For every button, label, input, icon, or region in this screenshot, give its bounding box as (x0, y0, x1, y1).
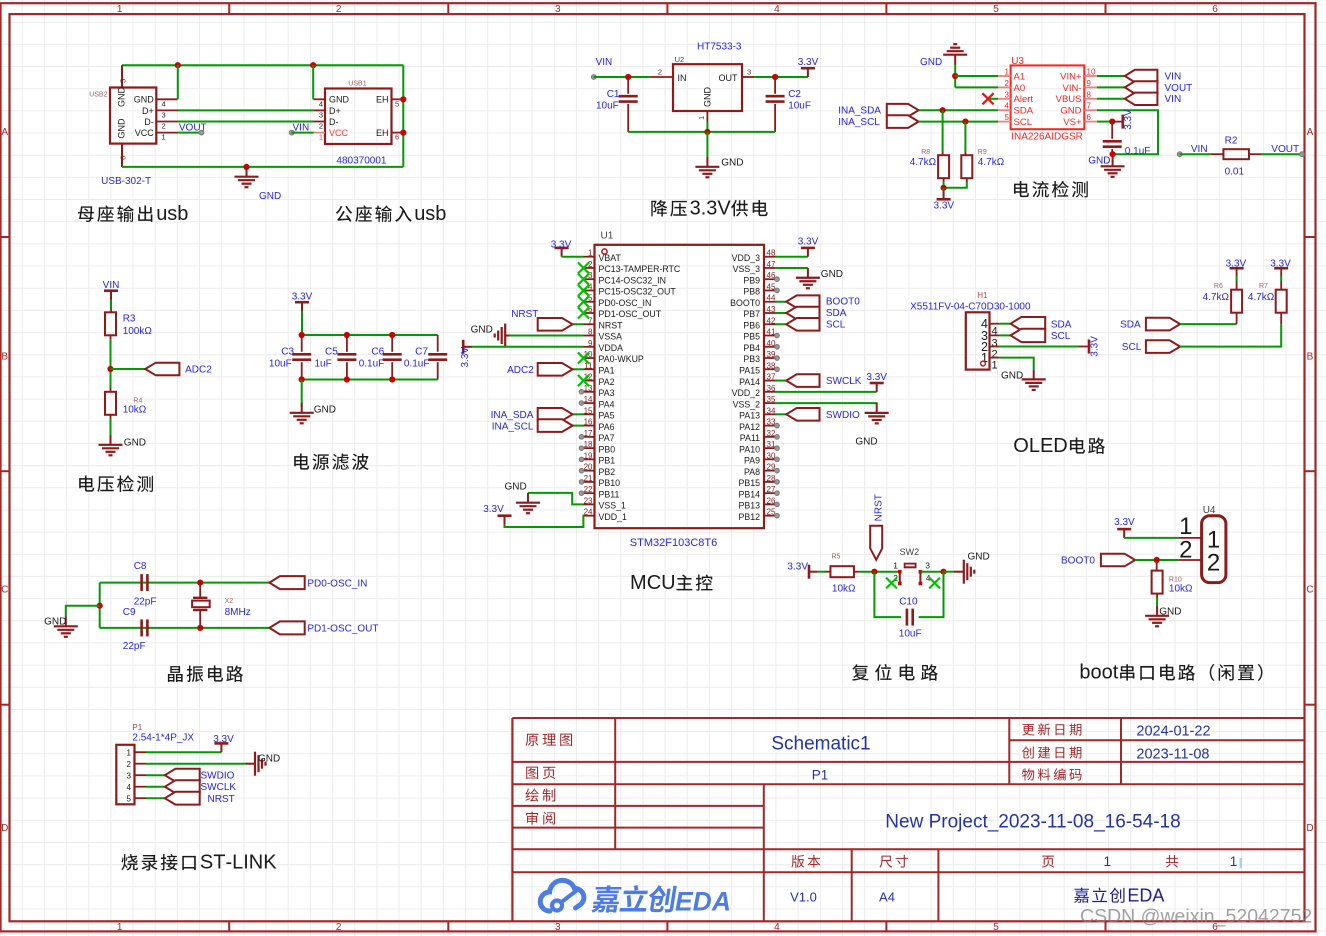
svg-text:4.7kΩ: 4.7kΩ (978, 157, 1005, 168)
svg-text:GND: GND (471, 324, 493, 335)
svg-text:5: 5 (395, 99, 399, 108)
svg-text:PA10: PA10 (739, 444, 760, 454)
svg-text:u: u (414, 203, 425, 225)
svg-text:PA12: PA12 (739, 422, 760, 432)
svg-text:17: 17 (584, 429, 593, 438)
svg-text:3: 3 (706, 198, 717, 220)
svg-text:V: V (717, 198, 731, 220)
svg-text:B: B (1307, 352, 1314, 363)
svg-text:100kΩ: 100kΩ (123, 326, 153, 337)
svg-text:M: M (630, 572, 647, 594)
svg-text:1: 1 (127, 749, 132, 758)
svg-text:GND: GND (117, 87, 127, 108)
svg-text:VBAT: VBAT (599, 253, 622, 263)
svg-text:3: 3 (1005, 90, 1010, 99)
svg-text:VIN: VIN (596, 57, 613, 68)
svg-text:K: K (263, 852, 277, 874)
svg-text:GND: GND (703, 87, 713, 108)
svg-text:44: 44 (767, 294, 776, 303)
svg-text:10uF: 10uF (269, 359, 292, 370)
svg-text:1uF: 1uF (315, 359, 332, 370)
svg-text:SCL: SCL (1014, 117, 1032, 128)
svg-text:GND: GND (1088, 156, 1110, 167)
svg-text:PB10: PB10 (599, 478, 621, 488)
svg-text:NRST: NRST (208, 794, 235, 805)
svg-text:PB8: PB8 (743, 287, 760, 297)
svg-text:SCL: SCL (1051, 331, 1071, 342)
svg-text:Alert: Alert (1014, 94, 1034, 105)
svg-text:USB-302-T: USB-302-T (101, 176, 151, 187)
svg-text:E: E (1040, 435, 1053, 457)
svg-text:1: 1 (319, 133, 323, 142)
svg-text:U3: U3 (1011, 56, 1024, 67)
svg-text:2024-01-22: 2024-01-22 (1136, 723, 1210, 739)
svg-text:SCL: SCL (826, 319, 846, 330)
svg-text:INA_SDA: INA_SDA (491, 410, 534, 421)
svg-text:C7: C7 (415, 347, 428, 358)
svg-text:PB9: PB9 (743, 275, 760, 285)
svg-text:PA15: PA15 (739, 366, 760, 376)
svg-text:3.3V: 3.3V (551, 240, 572, 251)
svg-text:BOOT0: BOOT0 (1061, 556, 1095, 567)
svg-text:PA7: PA7 (599, 433, 615, 443)
svg-text:GND: GND (44, 617, 66, 628)
svg-text:NRST: NRST (599, 320, 624, 330)
svg-text:PB0: PB0 (599, 444, 616, 454)
svg-text:VDD_2: VDD_2 (732, 388, 760, 398)
svg-text:19: 19 (584, 451, 593, 460)
svg-text:2: 2 (319, 122, 323, 131)
svg-text:EH: EH (376, 128, 389, 138)
svg-text:47: 47 (767, 260, 776, 269)
svg-text:A0: A0 (1014, 83, 1026, 94)
svg-text:18: 18 (584, 440, 593, 449)
svg-text:10uF: 10uF (899, 629, 922, 640)
svg-text:9: 9 (1087, 79, 1092, 88)
svg-text:3.3V: 3.3V (1114, 517, 1135, 528)
svg-text:GND: GND (968, 552, 990, 563)
svg-text:PB11: PB11 (599, 489, 620, 499)
svg-text:SDA: SDA (826, 308, 847, 319)
svg-text:NRST: NRST (511, 309, 538, 320)
svg-text:0.1uF: 0.1uF (359, 359, 385, 370)
svg-text:10: 10 (1087, 68, 1096, 77)
svg-text:VIN: VIN (1165, 71, 1182, 82)
svg-text:GND: GND (920, 57, 942, 68)
svg-text:C9: C9 (123, 607, 136, 618)
svg-text:480370001: 480370001 (336, 156, 386, 167)
svg-text:VIN: VIN (293, 122, 310, 133)
svg-text:8MHz: 8MHz (225, 607, 251, 618)
svg-text:15: 15 (584, 406, 593, 415)
svg-text:3.3V: 3.3V (798, 236, 819, 247)
svg-text:R3: R3 (123, 313, 136, 324)
svg-text:3: 3 (127, 772, 132, 781)
svg-text:6: 6 (1087, 113, 1092, 122)
svg-text:5: 5 (127, 795, 132, 804)
svg-text:V1.0: V1.0 (790, 890, 817, 905)
svg-text:PB13: PB13 (738, 501, 760, 511)
svg-text:GND: GND (1001, 370, 1023, 381)
svg-text:D-: D- (329, 117, 339, 127)
svg-text:PB15: PB15 (738, 478, 760, 488)
svg-text:VBUS: VBUS (1056, 94, 1082, 105)
svg-text:PB1: PB1 (599, 456, 616, 466)
svg-text:2: 2 (127, 760, 132, 769)
svg-text:2.54-1*4P_JX: 2.54-1*4P_JX (132, 733, 194, 744)
svg-text:1: 1 (162, 133, 166, 142)
svg-text:PA0-WKUP: PA0-WKUP (599, 354, 644, 364)
svg-text:D: D (1306, 823, 1313, 834)
svg-text:HT7533-3: HT7533-3 (697, 42, 742, 53)
svg-text:4: 4 (162, 99, 166, 108)
svg-text:o: o (1102, 662, 1113, 684)
svg-text:2023-11-08: 2023-11-08 (1136, 747, 1209, 763)
svg-text:3.3V: 3.3V (787, 562, 808, 573)
svg-text:4: 4 (127, 783, 132, 792)
svg-text:EH: EH (376, 95, 389, 105)
svg-text:SWDIO: SWDIO (201, 771, 235, 782)
svg-text:D: D (1, 823, 8, 834)
svg-text:8: 8 (588, 328, 593, 337)
svg-text:PA9: PA9 (744, 456, 760, 466)
svg-text:1: 1 (1230, 854, 1238, 869)
svg-text:2: 2 (336, 4, 342, 15)
svg-text:s: s (425, 203, 435, 225)
svg-text:C: C (1306, 585, 1313, 596)
svg-text:C: C (647, 572, 661, 594)
svg-text:PD1-OSC_OUT: PD1-OSC_OUT (307, 623, 378, 634)
svg-text:P1: P1 (132, 723, 142, 732)
svg-text:R2: R2 (1225, 136, 1238, 147)
svg-text:o: o (1091, 662, 1102, 684)
svg-text:10uF: 10uF (788, 101, 811, 112)
svg-text:10kΩ: 10kΩ (1169, 584, 1193, 595)
svg-text:b: b (1079, 662, 1090, 684)
svg-text:8: 8 (1087, 90, 1092, 99)
svg-text:VIN: VIN (1165, 94, 1182, 105)
svg-text:VIN: VIN (103, 280, 120, 291)
svg-text:BOOT0: BOOT0 (826, 297, 860, 308)
svg-text:6: 6 (1212, 4, 1218, 15)
svg-text:ADC2: ADC2 (185, 365, 212, 376)
svg-text:R5: R5 (832, 554, 841, 561)
svg-text:23: 23 (584, 496, 593, 505)
svg-text:3.3V: 3.3V (460, 347, 471, 368)
svg-text:3: 3 (319, 111, 323, 120)
svg-text:D: D (1139, 886, 1152, 906)
svg-text:PA13: PA13 (739, 411, 760, 421)
svg-text:D+: D+ (142, 106, 154, 116)
svg-text:D-: D- (144, 117, 154, 127)
svg-text:1: 1 (1005, 68, 1010, 77)
svg-text:PB4: PB4 (743, 343, 760, 353)
svg-text:10kΩ: 10kΩ (123, 405, 147, 416)
svg-text:A: A (1152, 886, 1164, 906)
svg-text:43: 43 (767, 305, 776, 314)
svg-text:VDDA: VDDA (599, 343, 624, 353)
svg-text:16: 16 (584, 418, 593, 427)
svg-text:3.3V: 3.3V (934, 200, 955, 211)
svg-text:3.3V: 3.3V (483, 504, 504, 515)
svg-text:VCC: VCC (329, 128, 349, 138)
svg-text:INA_SCL: INA_SCL (492, 421, 534, 432)
svg-text:1: 1 (697, 116, 706, 120)
svg-text:L: L (1029, 435, 1040, 457)
svg-text:PB6: PB6 (743, 320, 760, 330)
svg-text:u: u (156, 203, 167, 225)
svg-text:1: 1 (117, 922, 123, 933)
svg-text:1: 1 (117, 4, 123, 15)
svg-text:D+: D+ (329, 106, 341, 116)
svg-text:24: 24 (584, 508, 593, 517)
svg-text:3: 3 (555, 922, 561, 933)
svg-text:4: 4 (1005, 102, 1010, 111)
svg-text:VIN+: VIN+ (1060, 71, 1082, 82)
svg-text:New Project_2023-11-08_16-54-1: New Project_2023-11-08_16-54-18 (885, 812, 1180, 833)
svg-text:37: 37 (767, 373, 776, 382)
svg-text:36: 36 (767, 384, 776, 393)
svg-text:PB5: PB5 (743, 332, 760, 342)
svg-text:VS+: VS+ (1063, 117, 1082, 128)
svg-text:C2: C2 (788, 89, 801, 100)
svg-text:3: 3 (747, 68, 751, 77)
svg-text:PB2: PB2 (599, 467, 616, 477)
svg-text:C5: C5 (325, 347, 338, 358)
svg-text:INA_SDA: INA_SDA (838, 106, 881, 117)
svg-text:VDD_3: VDD_3 (732, 253, 760, 263)
svg-text:2: 2 (1005, 79, 1010, 88)
svg-text:SWDIO: SWDIO (826, 410, 860, 421)
svg-text:3.3V: 3.3V (1123, 109, 1134, 130)
svg-text:PB12: PB12 (738, 512, 760, 522)
svg-text:5: 5 (119, 79, 128, 83)
svg-text:4.7kΩ: 4.7kΩ (1203, 292, 1230, 303)
svg-text:B: B (1, 352, 8, 363)
svg-text:INA_SCL: INA_SCL (838, 117, 880, 128)
svg-text:5: 5 (1005, 113, 1010, 122)
svg-text:C: C (1, 585, 8, 596)
svg-text:1: 1 (992, 360, 998, 372)
svg-text:PA11: PA11 (740, 433, 760, 443)
svg-text:C10: C10 (899, 597, 918, 608)
svg-text:42: 42 (767, 316, 776, 325)
svg-text:U4: U4 (1203, 505, 1216, 516)
svg-text:PC13-TAMPER-RTC: PC13-TAMPER-RTC (599, 264, 681, 274)
svg-text:22pF: 22pF (134, 596, 157, 607)
svg-text:O: O (1013, 435, 1029, 457)
svg-text:9: 9 (588, 339, 593, 348)
svg-text:3: 3 (555, 4, 561, 15)
svg-text:t: t (1113, 662, 1119, 684)
svg-text:GND: GND (124, 438, 146, 449)
svg-text:R7: R7 (1259, 283, 1268, 290)
svg-text:GND: GND (314, 405, 336, 416)
svg-text:L: L (232, 852, 243, 874)
svg-text:1: 1 (588, 249, 593, 258)
svg-text:GND: GND (134, 95, 155, 105)
svg-text:GND: GND (855, 437, 877, 448)
svg-text:USB2: USB2 (89, 92, 107, 99)
svg-text:S: S (200, 852, 213, 874)
svg-text:PA5: PA5 (599, 411, 615, 421)
svg-text:4.7kΩ: 4.7kΩ (910, 157, 937, 168)
svg-text:3.3V: 3.3V (866, 372, 887, 383)
svg-text:GND: GND (259, 191, 281, 202)
svg-text:VSSA: VSSA (599, 332, 623, 342)
svg-text:0.1uF: 0.1uF (1125, 146, 1151, 157)
svg-text:R8: R8 (921, 149, 930, 156)
svg-text:IN: IN (678, 73, 687, 83)
svg-text:U: U (661, 572, 675, 594)
svg-text:A: A (1, 127, 8, 138)
svg-text:E: E (1127, 886, 1139, 906)
svg-text:NRST: NRST (874, 494, 885, 521)
svg-text:PA8: PA8 (744, 467, 760, 477)
svg-text:X5511FV-04-C70D30-1000: X5511FV-04-C70D30-1000 (910, 302, 1031, 313)
svg-text:R6: R6 (1214, 283, 1223, 290)
svg-text:STM32F103C8T6: STM32F103C8T6 (630, 537, 717, 549)
svg-text:SDA: SDA (1051, 319, 1072, 330)
svg-text:1: 1 (893, 561, 898, 571)
svg-text:C3: C3 (281, 347, 294, 358)
svg-text:OUT: OUT (719, 73, 739, 83)
svg-text:2: 2 (1179, 536, 1192, 563)
svg-text:PD1-OSC_OUT: PD1-OSC_OUT (599, 309, 662, 319)
svg-text:3: 3 (162, 111, 166, 120)
svg-text:D: D (1053, 435, 1067, 457)
svg-text:7: 7 (1087, 102, 1092, 111)
svg-text:VSS_2: VSS_2 (733, 399, 760, 409)
svg-text:PC14-OSC32_IN: PC14-OSC32_IN (599, 275, 666, 285)
svg-text:SDA: SDA (1120, 319, 1141, 330)
svg-text:4.7kΩ: 4.7kΩ (1248, 292, 1275, 303)
svg-text:5: 5 (993, 4, 999, 15)
svg-text:PA2: PA2 (599, 377, 615, 387)
svg-text:VSS_3: VSS_3 (733, 264, 760, 274)
svg-text:GND: GND (258, 754, 280, 765)
svg-text:10uF: 10uF (596, 101, 619, 112)
svg-text:GND: GND (1060, 106, 1081, 117)
svg-text:PA14: PA14 (739, 377, 760, 387)
svg-text:C8: C8 (134, 561, 147, 572)
svg-text:A1: A1 (1014, 71, 1026, 82)
svg-text:3.3V: 3.3V (1090, 336, 1101, 357)
svg-text:b: b (435, 203, 446, 225)
svg-text:PB14: PB14 (738, 489, 760, 499)
svg-text:GND: GND (721, 158, 743, 169)
svg-text:s: s (167, 203, 177, 225)
svg-text:48: 48 (767, 249, 776, 258)
svg-text:22pF: 22pF (123, 641, 146, 652)
svg-text:Schematic1: Schematic1 (771, 734, 870, 755)
svg-text:GND: GND (117, 118, 127, 139)
svg-text:b: b (177, 203, 188, 225)
svg-text:SW2: SW2 (900, 547, 920, 557)
svg-text:PD0-OSC_IN: PD0-OSC_IN (307, 578, 367, 589)
svg-text:X2: X2 (225, 598, 234, 605)
svg-text:H1: H1 (977, 291, 988, 300)
svg-text:4: 4 (774, 4, 780, 15)
svg-text:PA3: PA3 (599, 388, 615, 398)
svg-text:20: 20 (584, 463, 593, 472)
svg-text:1: 1 (981, 351, 988, 365)
svg-text:0.01: 0.01 (1225, 166, 1245, 177)
svg-text:A4: A4 (879, 890, 895, 905)
svg-text:1: 1 (1104, 854, 1112, 869)
svg-text:35: 35 (767, 395, 776, 404)
svg-text:3.3V: 3.3V (213, 734, 234, 745)
svg-text:21: 21 (584, 474, 593, 483)
svg-text:PB3: PB3 (743, 354, 760, 364)
svg-text:VSS_1: VSS_1 (599, 501, 626, 511)
svg-text:PB7: PB7 (743, 309, 760, 319)
svg-text:2: 2 (336, 922, 342, 933)
svg-text:P1: P1 (812, 768, 829, 783)
svg-text:SDA: SDA (1014, 106, 1034, 117)
svg-text:GND: GND (329, 95, 350, 105)
svg-text:R9: R9 (978, 149, 987, 156)
svg-text:2: 2 (1207, 549, 1220, 576)
svg-text:VOUT: VOUT (1271, 144, 1299, 155)
svg-text:3: 3 (925, 561, 930, 571)
svg-text:5: 5 (993, 922, 999, 933)
svg-text:2: 2 (658, 68, 662, 77)
svg-text:ADC2: ADC2 (507, 365, 534, 376)
svg-text:A: A (1307, 127, 1314, 138)
svg-text:SCL: SCL (1122, 342, 1142, 353)
svg-text:U2: U2 (675, 55, 685, 64)
svg-text:N: N (249, 852, 263, 874)
svg-text:PA1: PA1 (599, 366, 615, 376)
svg-text:2: 2 (162, 122, 166, 131)
svg-text:VOUT: VOUT (1165, 83, 1193, 94)
svg-text:INA226AIDGSR: INA226AIDGSR (1011, 131, 1083, 142)
svg-text:BOOT0: BOOT0 (730, 298, 760, 308)
svg-text:EDA: EDA (675, 887, 731, 917)
svg-text:0.1uF: 0.1uF (404, 359, 430, 370)
svg-text:3.3V: 3.3V (292, 292, 313, 303)
svg-text:3: 3 (690, 198, 701, 220)
svg-text:10kΩ: 10kΩ (832, 584, 856, 595)
svg-text:VOUT: VOUT (179, 122, 207, 133)
svg-text:2: 2 (588, 260, 593, 269)
svg-text:R4: R4 (133, 398, 142, 405)
svg-text:4: 4 (774, 922, 780, 933)
svg-text:4: 4 (319, 99, 323, 108)
svg-text:GND: GND (1159, 606, 1181, 617)
svg-text:PD0-OSC_IN: PD0-OSC_IN (599, 298, 652, 308)
svg-text:T: T (213, 852, 225, 874)
svg-text:GND: GND (821, 269, 843, 280)
svg-text:6: 6 (119, 156, 128, 160)
svg-text:22: 22 (584, 485, 593, 494)
svg-text:GND: GND (505, 482, 527, 493)
svg-text:CSDN @weixin_52042752: CSDN @weixin_52042752 (1080, 906, 1312, 928)
svg-text:34: 34 (767, 406, 776, 415)
svg-text:VCC: VCC (135, 128, 155, 138)
svg-text:C6: C6 (371, 347, 384, 358)
svg-text:USB1: USB1 (348, 80, 366, 87)
svg-text:PC15-OSC32_OUT: PC15-OSC32_OUT (599, 287, 677, 297)
svg-text:SWCLK: SWCLK (826, 376, 862, 387)
svg-text:SWCLK: SWCLK (201, 782, 237, 793)
svg-text:PA4: PA4 (599, 399, 615, 409)
svg-text:C1: C1 (607, 89, 620, 100)
svg-text:VDD_1: VDD_1 (599, 512, 627, 522)
svg-text:VIN-: VIN- (1063, 83, 1082, 94)
svg-text:3.3V: 3.3V (798, 57, 819, 68)
